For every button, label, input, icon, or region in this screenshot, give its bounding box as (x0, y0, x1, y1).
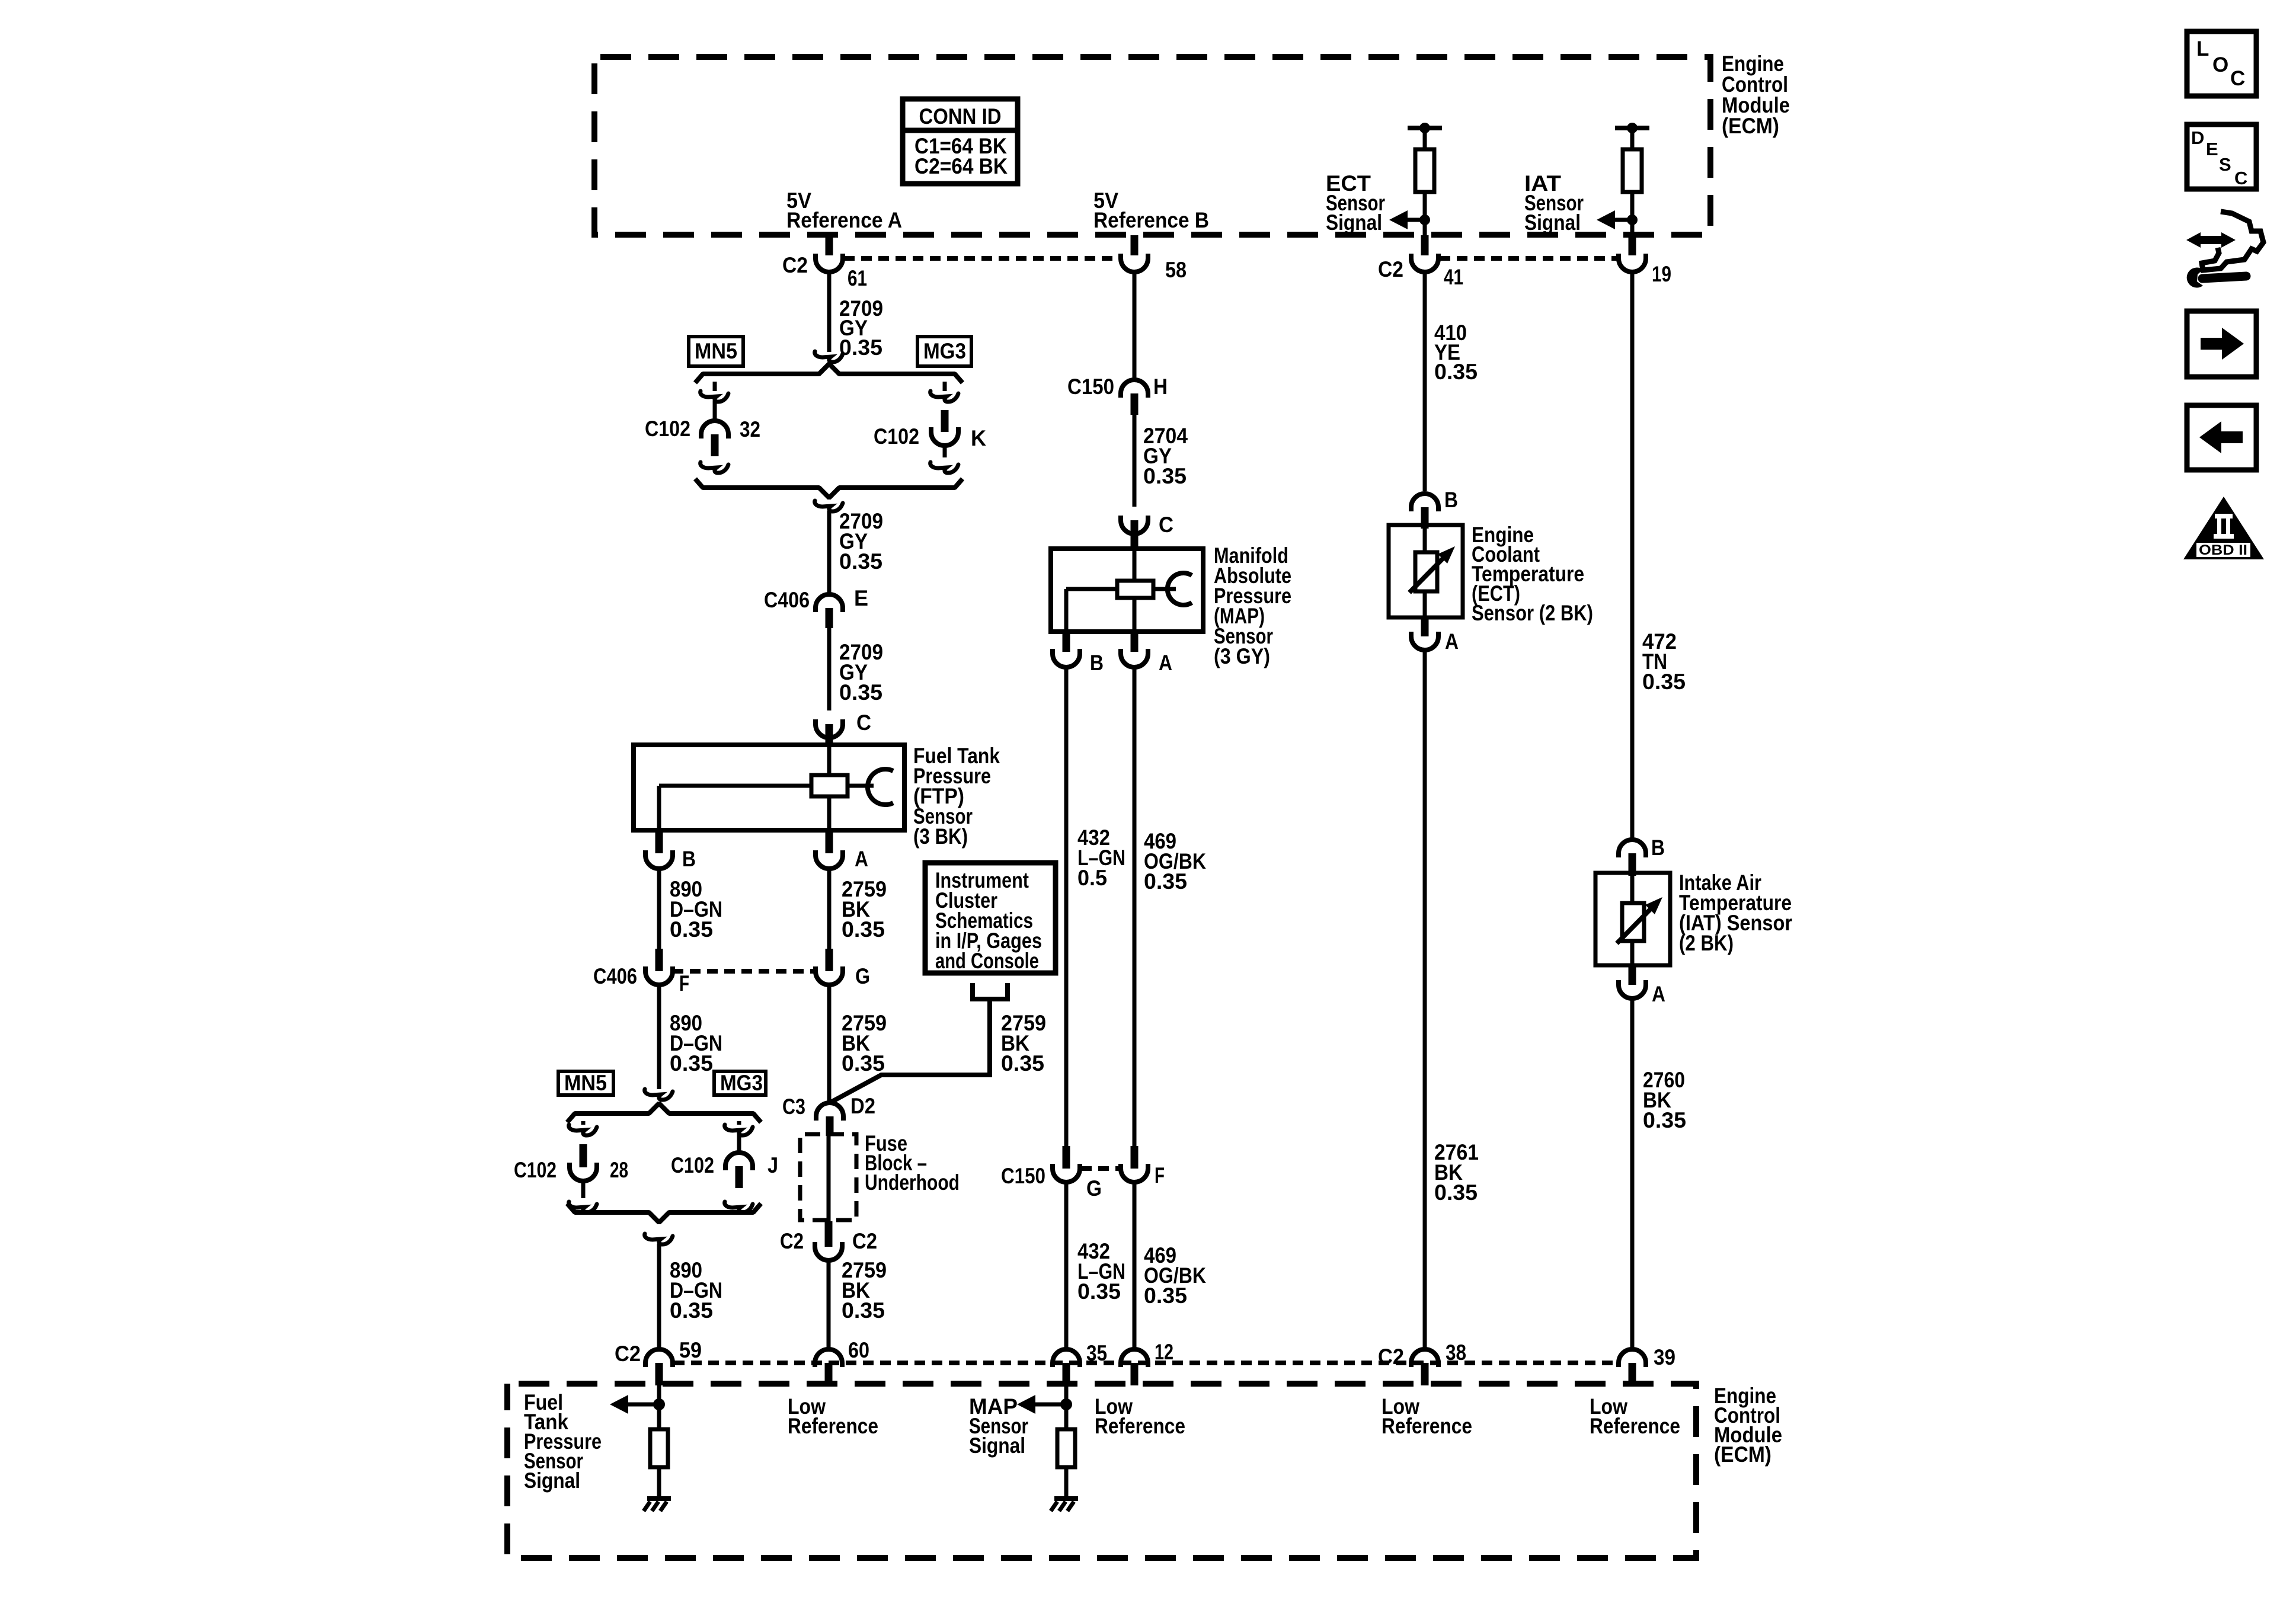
svg-text:B: B (1444, 488, 1458, 512)
connector pin 58 (ECM side) (1131, 235, 1139, 255)
svg-text:D: D (2191, 127, 2204, 148)
icon DESC box (2187, 124, 2256, 189)
svg-text:G: G (855, 964, 870, 988)
ECT internal wire top (1423, 525, 1427, 553)
svg-text:H: H (1153, 375, 1168, 399)
connector pin 28 (580, 1144, 587, 1167)
connector dashed link 41-19 (1440, 256, 1617, 261)
Engine Control Module (ECM) bottom dashed box (507, 1384, 1696, 1558)
svg-text:0.35: 0.35 (1144, 869, 1187, 894)
svg-text:F: F (679, 971, 689, 996)
svg-text:0.35: 0.35 (842, 1298, 885, 1323)
connector dome 12 (1121, 1349, 1148, 1367)
svg-text:0.35: 0.35 (1434, 1180, 1478, 1205)
icon diagnostic wrench (2186, 232, 2201, 248)
FTP internal wire vertical (827, 745, 832, 830)
connector cup C150-G (1053, 1164, 1080, 1182)
svg-text:0.5: 0.5 (1077, 866, 1107, 890)
svg-text:32: 32 (740, 417, 760, 441)
wire 2759 BK from note box (831, 999, 990, 1102)
svg-text:Signal: Signal (969, 1433, 1025, 1458)
connector pin B into IAT (1629, 853, 1636, 876)
connector dome 35 (1053, 1349, 1080, 1367)
node dot ECT signal junction (1419, 215, 1430, 225)
connector pin A below ECT (1421, 617, 1429, 636)
connector pin K (941, 410, 949, 432)
connector pin 35 (ECM side) (1063, 1363, 1070, 1385)
FTP potentiometer element (811, 775, 848, 796)
wire 2704 GY to MAP C (1133, 415, 1137, 507)
svg-text:0.35: 0.35 (1001, 1051, 1044, 1076)
wire through fuse block (827, 1136, 831, 1221)
svg-text:A: A (1159, 651, 1172, 675)
svg-text:0.35: 0.35 (1434, 360, 1478, 384)
svg-text:Reference B: Reference B (1093, 208, 1209, 232)
connector pin G (826, 949, 833, 971)
FTP wiper arc (868, 769, 893, 805)
connector cup A (MAP) (1121, 649, 1148, 667)
svg-text:C102: C102 (514, 1158, 557, 1182)
wire 2761 BK to pin 38 (1423, 650, 1427, 1349)
svg-text:58: 58 (1165, 258, 1187, 282)
svg-text:A: A (1652, 982, 1665, 1006)
svg-text:C: C (1159, 513, 1173, 537)
IAT variable arrow (1617, 908, 1652, 943)
splice brace MN5/MG3 bottom (2) (567, 1204, 761, 1222)
svg-text:41: 41 (1444, 265, 1463, 289)
node dot ECT top (1419, 123, 1430, 133)
connector pin C into FTP (826, 724, 833, 747)
svg-text:C: C (2234, 168, 2247, 188)
connector cup terminal 41 (1411, 254, 1438, 272)
svg-text:(ECM): (ECM) (1722, 114, 1779, 138)
MAP wiper arc (1168, 573, 1192, 605)
MAP signal arrow (1017, 1395, 1035, 1414)
connector cup A (IAT) (1619, 980, 1646, 998)
wire ECT tee to resistor (1423, 128, 1427, 149)
svg-text:Reference: Reference (1590, 1414, 1680, 1438)
wire below 28 (581, 1181, 586, 1198)
wire 2704 GY from pin 58 (1133, 272, 1137, 380)
connector dome C150-H (1121, 380, 1148, 398)
connector dashed link F-G (673, 969, 816, 974)
node dot MAP signal (1060, 1398, 1072, 1410)
svg-text:0.35: 0.35 (670, 1298, 713, 1323)
ECT variable arrow (1409, 557, 1444, 593)
svg-text:C2: C2 (852, 1229, 877, 1253)
connector pin F (C150) (1131, 1146, 1139, 1169)
Fuel Tank Pressure sensor box (634, 745, 904, 830)
svg-text:Reference: Reference (1095, 1414, 1185, 1438)
connector cup C2-C2 (815, 1242, 842, 1260)
connector cup B (FTP) (645, 850, 673, 869)
CONN ID table (903, 99, 1018, 184)
svg-text:0.35: 0.35 (1077, 1279, 1121, 1304)
svg-text:C: C (856, 710, 871, 735)
wire to C102-J (737, 1134, 741, 1153)
note box lead bracket (973, 983, 1008, 999)
wire to C102-32 (713, 401, 717, 421)
connector cup C (FTP) (816, 719, 843, 738)
connector dashed link 59-60-35-12-38-39 (674, 1361, 1619, 1365)
harness squiggle branch 28 top (569, 1125, 597, 1135)
connector dashed link 61-58 (844, 256, 1120, 261)
svg-text:MN5: MN5 (695, 339, 737, 363)
wire 2709 GY to FTP C (827, 628, 832, 710)
connector dome C3-D2 (816, 1103, 843, 1121)
svg-text:B: B (1090, 651, 1104, 675)
wire 890 D-GN from B (657, 869, 661, 949)
svg-text:(ECM): (ECM) (1714, 1442, 1771, 1467)
svg-text:0.35: 0.35 (839, 680, 882, 705)
icon OBD II triangle (2183, 497, 2264, 559)
harness squiggle branch 28 bottom (569, 1202, 597, 1212)
MAP potentiometer element (1117, 581, 1153, 598)
svg-text:O: O (2212, 53, 2228, 76)
svg-text:Reference: Reference (788, 1414, 878, 1438)
connector pin C into MAP (1131, 520, 1139, 551)
MAP internal left drop (1064, 589, 1069, 632)
connector cup C150-F (1121, 1164, 1148, 1182)
svg-text:Signal: Signal (524, 1468, 580, 1493)
harness squiggle branch J bottom (725, 1202, 753, 1212)
wire 472 TN from pin 19 (1630, 272, 1635, 840)
svg-text:12: 12 (1155, 1340, 1173, 1364)
resistor ECM (MAP low ref) (1057, 1429, 1075, 1467)
component box MN5 (689, 337, 743, 366)
harness squiggle branch J top (725, 1125, 753, 1135)
svg-text:(2 BK): (2 BK) (1679, 931, 1734, 955)
svg-text:59: 59 (679, 1338, 702, 1362)
wire 2759 BK below G (827, 985, 832, 1102)
ECT internal wire bottom (1423, 591, 1427, 617)
wire branch J drop (737, 1121, 741, 1125)
svg-text:C150: C150 (1001, 1164, 1045, 1188)
svg-text:G: G (1086, 1176, 1102, 1201)
node dot IAT signal junction (1627, 215, 1638, 225)
connector dome B (ECT) (1411, 494, 1438, 511)
wire ECT junction down to pin (1423, 220, 1427, 237)
harness squiggle branch 32 top (701, 391, 728, 402)
connector cup terminal 19 (1619, 254, 1646, 272)
connector dashed link G-F (1081, 1166, 1120, 1171)
wire 59 to ground network (657, 1385, 661, 1429)
Engine Coolant Temperature sensor box (1389, 525, 1463, 617)
harness squiggle branch 32 bottom (701, 462, 728, 473)
connector pin 19 (ECM side) (1629, 235, 1636, 255)
svg-text:and Console: and Console (935, 949, 1039, 973)
svg-text:OBD II: OBD II (2199, 542, 2247, 558)
connector dome 59 (645, 1349, 673, 1367)
svg-text:C406: C406 (593, 964, 637, 988)
harness squiggle below brace (815, 501, 843, 511)
wire 2709 GY to C406 (827, 511, 832, 594)
component box MN5 (2) (558, 1071, 613, 1095)
connector pin B below FTP (655, 830, 663, 853)
splice brace MN5/MG3 bottom (695, 479, 962, 498)
svg-text:0.35: 0.35 (1144, 1283, 1187, 1308)
MAP wiper link (1153, 587, 1176, 591)
wire 410 YE from pin 41 (1423, 272, 1427, 491)
connector cup terminal 58 (1121, 254, 1148, 272)
svg-text:19: 19 (1652, 262, 1671, 286)
svg-text:0.35: 0.35 (670, 917, 713, 942)
svg-text:C2: C2 (1378, 1345, 1404, 1369)
svg-text:S: S (2219, 154, 2231, 175)
svg-text:MG3: MG3 (923, 339, 966, 363)
svg-text:C102: C102 (671, 1153, 714, 1177)
splice brace MN5/MG3 top (2) (567, 1103, 761, 1122)
connector dome C406-E (816, 594, 843, 612)
wire ECT resistor to junction (1423, 192, 1427, 220)
connector dome 60 (815, 1349, 842, 1367)
svg-text:C3: C3 (782, 1094, 805, 1119)
IAT pull-up tee bar (1615, 126, 1649, 130)
svg-text:60: 60 (848, 1338, 869, 1362)
svg-text:C2: C2 (782, 253, 808, 277)
svg-text:Signal: Signal (1326, 210, 1382, 235)
connector pin F (655, 949, 663, 971)
connector pin A below MAP (1131, 632, 1139, 652)
IAT sensor signal arrow (1597, 210, 1615, 229)
connector pin 32 (711, 434, 719, 456)
svg-text:E: E (854, 586, 868, 610)
wire 2760 BK to pin 39 (1630, 998, 1635, 1349)
wire to ground (MAP) (1064, 1467, 1069, 1497)
connector pin A below IAT (1629, 965, 1636, 985)
svg-text:C406: C406 (764, 588, 810, 612)
wire 35 to ground network (1064, 1385, 1069, 1429)
svg-text:E: E (2206, 139, 2218, 159)
svg-text:Signal: Signal (1524, 210, 1581, 235)
connector cup B (MAP) (1053, 649, 1080, 667)
harness squiggle branch K bottom (930, 462, 958, 473)
svg-text:B: B (682, 847, 696, 871)
connector cup A (FTP) (816, 850, 843, 869)
connector pin 39 (ECM side) (1629, 1363, 1636, 1385)
ground (FTP low reference) (647, 1496, 671, 1501)
wire IAT tee to resistor (1630, 128, 1635, 149)
node dot FTP signal (653, 1398, 665, 1410)
connector dome C102-32 (701, 421, 728, 438)
wire to ground (FTP) (657, 1467, 661, 1497)
icon forward arrow box (2187, 311, 2256, 377)
Fuse Block - Underhood dashed box (800, 1134, 856, 1220)
svg-text:F: F (1155, 1163, 1165, 1188)
FTP internal left drop (657, 786, 661, 830)
svg-text:39: 39 (1654, 1345, 1675, 1369)
harness squiggle branch K top (930, 391, 958, 402)
svg-text:C2=64 BK: C2=64 BK (914, 154, 1008, 178)
svg-text:C2: C2 (615, 1342, 641, 1366)
harness break squiggle (815, 351, 843, 362)
connector pin A below FTP (826, 830, 833, 853)
Manifold Absolute Pressure sensor box (1051, 549, 1203, 632)
svg-text:0.35: 0.35 (1642, 670, 1686, 694)
FTP wiper link (848, 784, 874, 788)
svg-text:(3 BK): (3 BK) (913, 824, 968, 849)
svg-text:C2: C2 (780, 1229, 804, 1253)
svg-text:MG3: MG3 (720, 1071, 763, 1095)
harness squiggle above brace 2 (645, 1089, 673, 1100)
wire 432 L-GN from MAP B (1064, 667, 1069, 1146)
connector pin B below MAP (1063, 632, 1070, 652)
ECT sensor signal arrow (1389, 210, 1408, 229)
IAT internal wire bottom (1630, 941, 1635, 965)
connector cup C (MAP) (1121, 516, 1148, 534)
svg-text:MN5: MN5 (564, 1071, 607, 1095)
FTP signal arrow (610, 1395, 628, 1414)
connector dome B (IAT) (1619, 840, 1646, 857)
connector pin 59 (ECM side) (655, 1363, 663, 1385)
svg-text:A: A (1445, 629, 1459, 654)
connector dome 38 (1411, 1349, 1438, 1367)
connector pin 38 (ECM side) (1421, 1363, 1429, 1385)
connector pin B into ECT (1421, 507, 1429, 529)
icon LOC box (2187, 31, 2256, 96)
svg-text:38: 38 (1446, 1340, 1466, 1365)
connector cup C102-K (931, 427, 958, 446)
IAT internal wire top (1630, 873, 1635, 904)
resistor IAT pull-up (1623, 149, 1642, 192)
svg-text:C150: C150 (1067, 375, 1114, 399)
connector pin 41 (ECM side) (1421, 235, 1429, 255)
connector pin E (826, 608, 833, 628)
svg-text:0.35: 0.35 (839, 335, 882, 360)
svg-text:K: K (971, 426, 986, 450)
resistor ECT pull-up (1415, 149, 1434, 192)
connector pin H (1131, 393, 1139, 415)
Engine Control Module (ECM) top dashed box (594, 57, 1710, 235)
wire 890 D-GN to pin 59 (657, 1244, 661, 1349)
connector pin 12 (ECM side) (1131, 1363, 1139, 1385)
wire 2759 BK from A (827, 869, 832, 949)
svg-text:B: B (1651, 836, 1665, 860)
svg-text:0.35: 0.35 (1643, 1108, 1686, 1132)
svg-text:C: C (2230, 67, 2245, 90)
component box MG3 (2) (714, 1071, 766, 1095)
svg-text:0.35: 0.35 (670, 1051, 713, 1076)
connector cup A (ECT) (1411, 632, 1438, 650)
wire below K (943, 446, 947, 457)
MAP internal horizontal wire (1066, 587, 1117, 591)
svg-text:Reference A: Reference A (786, 208, 902, 232)
svg-text:28: 28 (610, 1158, 628, 1182)
resistor ECM (FTP low ref) (650, 1429, 668, 1467)
svg-text:J: J (768, 1153, 778, 1177)
ECT thermistor element (1415, 552, 1437, 591)
connector pin J (736, 1166, 743, 1188)
connector cup C406-F (645, 966, 673, 985)
connector pin C2 (fuse out) (825, 1221, 833, 1247)
Intake Air Temperature sensor box (1595, 873, 1670, 965)
wire branch MN5 drop (713, 382, 717, 391)
wire 432 L-GN to pin 35 (1064, 1182, 1069, 1349)
wire 2709 GY from pin 61 (827, 272, 832, 352)
splice brace MN5/MG3 top (695, 364, 962, 383)
wire 469 OG/BK to pin 12 (1133, 1182, 1137, 1349)
svg-text:D2: D2 (850, 1094, 875, 1118)
wire branch MG3 drop (943, 382, 947, 391)
svg-text:Sensor (2 BK): Sensor (2 BK) (1472, 601, 1593, 625)
connector cup C102-28 (570, 1163, 597, 1181)
icon back arrow box (2187, 405, 2256, 470)
Instrument Cluster Schematics note box (925, 863, 1056, 973)
svg-text:C102: C102 (645, 417, 690, 441)
svg-text:61: 61 (848, 266, 867, 290)
svg-text:(3 GY): (3 GY) (1214, 644, 1270, 668)
svg-text:Underhood: Underhood (865, 1170, 960, 1195)
svg-text:C102: C102 (874, 424, 919, 449)
connector cup terminal 61 (816, 254, 843, 272)
FTP internal horizontal wire (659, 784, 811, 788)
component box MG3 (917, 337, 971, 366)
svg-text:0.35: 0.35 (842, 917, 885, 942)
svg-text:C2: C2 (1378, 257, 1403, 281)
connector pin D2 (826, 1116, 834, 1136)
connector cup G (816, 966, 843, 985)
ECT pull-up tee bar (1408, 126, 1442, 130)
svg-text:0.35: 0.35 (839, 549, 882, 574)
wire 2759 BK to pin 60 (827, 1260, 831, 1349)
wire branch 28 drop (581, 1121, 586, 1125)
svg-text:0.35: 0.35 (842, 1051, 885, 1076)
svg-text:A: A (855, 847, 868, 871)
svg-text:Reference: Reference (1382, 1414, 1472, 1438)
svg-text:L: L (2196, 37, 2209, 60)
node dot IAT top (1627, 123, 1638, 133)
wire IAT resistor to junction (1630, 192, 1635, 220)
wire 469 OG/BK from MAP A (1133, 667, 1137, 1146)
wire 890 D-GN below F (657, 985, 661, 1089)
connector dome 39 (1619, 1349, 1646, 1367)
harness squiggle below brace 2 (645, 1234, 673, 1244)
connector pin 61 (ECM side) (826, 235, 833, 255)
svg-text:CONN ID: CONN ID (919, 104, 1002, 129)
MAP internal vertical wire (1133, 549, 1137, 632)
connector dome C102-J (725, 1153, 753, 1170)
connector pin 60 (ECM side) (825, 1363, 833, 1385)
ground (MAP low reference) (1054, 1496, 1078, 1501)
connector pin G (C150) (1063, 1146, 1070, 1169)
wire IAT junction down to pin (1630, 220, 1635, 237)
IAT thermistor element (1622, 903, 1644, 941)
svg-text:0.35: 0.35 (1143, 464, 1187, 488)
svg-text:35: 35 (1086, 1341, 1107, 1365)
